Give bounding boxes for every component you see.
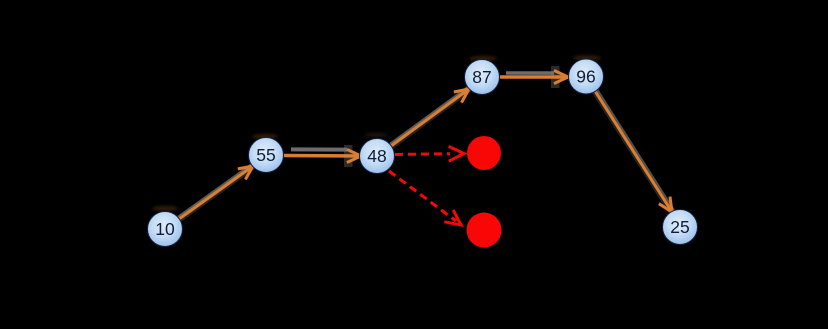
faint smudge above node 48	[364, 133, 388, 138]
svg-text:55: 55	[256, 145, 275, 165]
red node X1	[467, 136, 501, 170]
node 55	[249, 138, 284, 173]
svg-text:48: 48	[367, 146, 386, 166]
red node X2	[467, 213, 502, 248]
svg-text:96: 96	[576, 67, 595, 87]
node 48	[360, 139, 395, 174]
wire edge 48 to 87	[390, 87, 469, 146]
wire edge 10 to 55	[178, 164, 253, 219]
node 96	[569, 59, 604, 94]
node 10	[148, 212, 183, 247]
wire edge 55 to 48	[284, 145, 361, 167]
faint smudge above node 10	[152, 206, 178, 211]
wire dashed edge 48 to red node X1	[395, 146, 464, 161]
wire dashed edge 48 to red node X2	[389, 171, 461, 225]
svg-text:25: 25	[670, 217, 689, 237]
wire edge 87 to 96	[500, 66, 568, 88]
svg-text:10: 10	[155, 219, 175, 239]
node 87	[465, 60, 500, 95]
faint smudge above node 96	[573, 55, 601, 60]
wire edge 96 to 25	[595, 90, 674, 212]
faint smudge above node 55	[252, 134, 278, 139]
faint smudge above node 87	[469, 56, 497, 61]
node 25	[663, 210, 698, 245]
svg-text:87: 87	[472, 67, 491, 87]
